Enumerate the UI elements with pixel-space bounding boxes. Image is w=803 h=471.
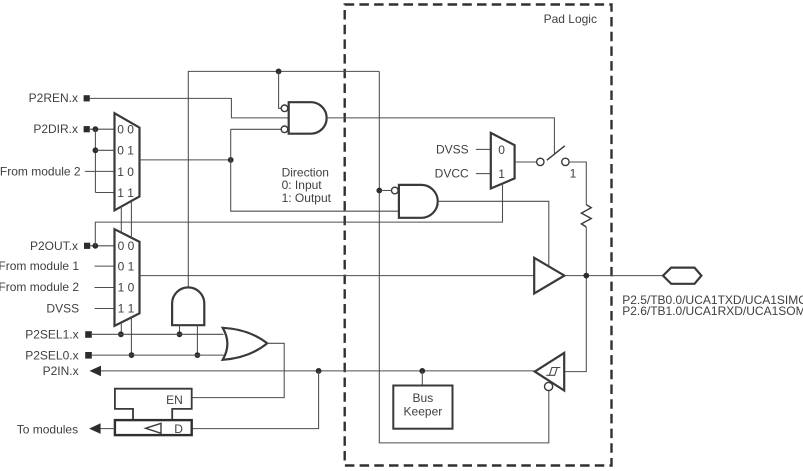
node P2IN to bus keeper junction bbox=[419, 368, 425, 374]
mux M2 (P2OUT select) bbox=[115, 229, 140, 326]
svg-text:DVSS: DVSS bbox=[46, 302, 79, 316]
wire switch to resistor R1 bbox=[569, 162, 586, 205]
gate U2 input bubble bbox=[392, 187, 399, 194]
wire Direction to NAND U1 bottom input bbox=[231, 128, 281, 130]
wire Direction vertical to gate U2 input bbox=[231, 129, 399, 211]
wire resistor R1 to pad line and Schmitt input bbox=[564, 227, 586, 372]
node P2DIR junction 2 bbox=[93, 147, 99, 153]
svg-text:DVSS: DVSS bbox=[436, 142, 469, 156]
wire OR U4 output to latch EN bbox=[192, 343, 285, 397]
Schmitt hysteresis symbol bbox=[546, 368, 560, 376]
wire From module 2 stub bbox=[95, 287, 115, 289]
wire From module 1 stub bbox=[95, 265, 115, 267]
AND U3 body (output up) bbox=[172, 287, 204, 325]
mux M3 (pull-up/down select) bbox=[491, 133, 515, 189]
svg-text:P2SEL1.x: P2SEL1.x bbox=[25, 328, 78, 342]
NAND U1 top input bubble bbox=[281, 105, 288, 112]
svg-text:DVCC: DVCC bbox=[435, 167, 469, 181]
wire P2OUT to mux M2 input 00 bbox=[90, 245, 115, 247]
wire NAND U1 output to switch lever bbox=[327, 118, 555, 154]
wire mux M1 select line S0 bbox=[130, 201, 132, 238]
switch S1 contact left bbox=[537, 158, 544, 165]
svg-text:0 1: 0 1 bbox=[118, 260, 135, 274]
svg-text:0 0: 0 0 bbox=[117, 123, 134, 137]
wire mux M1 select line S1 bbox=[120, 207, 122, 233]
svg-text:Bus: Bus bbox=[413, 391, 434, 405]
node P2OUT junction bbox=[92, 243, 98, 249]
svg-text:From module 2: From module 2 bbox=[0, 280, 79, 294]
wire DVSS stub bbox=[95, 308, 115, 310]
svg-text:Pad Logic: Pad Logic bbox=[544, 12, 597, 26]
gate U2 (AND with inverted input) body bbox=[399, 185, 438, 218]
svg-text:0: 0 bbox=[498, 143, 505, 157]
terminal square P2OUT.x bbox=[84, 243, 90, 249]
wire junction to gate U2 bubble bbox=[379, 190, 391, 192]
wire branch to NAND U1 top input bbox=[279, 71, 282, 108]
input Schmitt trigger U6 bbox=[535, 353, 564, 391]
svg-text:1 0: 1 0 bbox=[117, 165, 134, 179]
wire AND U3 input a bbox=[179, 325, 181, 334]
Pad Logic dashed box bbox=[345, 5, 612, 466]
wire P2SEL1 to OR U4 bbox=[92, 333, 224, 335]
latch L1 clock triangle bbox=[146, 423, 161, 433]
node AND U3 input a junction bbox=[177, 331, 183, 337]
node P2IN to D latch junction bbox=[316, 368, 322, 374]
NAND U1 bottom input bubble bbox=[281, 126, 288, 133]
node gate U2 input junction bbox=[376, 188, 382, 194]
node AND U3 input b junction bbox=[195, 352, 201, 358]
latch L1 EN block bbox=[115, 389, 192, 420]
wire P2IN line bbox=[101, 370, 535, 372]
wire P2DIR vertical branch bbox=[94, 129, 96, 192]
node select S0 junction bbox=[129, 352, 135, 358]
terminal square P2SEL0.x bbox=[85, 352, 92, 359]
wire DVSS stub bbox=[476, 148, 491, 150]
wire mux M1 output (Direction) bbox=[140, 159, 231, 161]
svg-text:0 0: 0 0 bbox=[118, 239, 135, 253]
wire gate U2 output to buffer enable bbox=[438, 201, 549, 266]
node select S1 junction bbox=[118, 331, 124, 337]
svg-text:From module 2: From module 2 bbox=[0, 164, 81, 178]
svg-text:From module 1: From module 1 bbox=[0, 259, 79, 273]
terminal square P2REN.x bbox=[84, 95, 90, 101]
switch S1 lever bbox=[547, 146, 565, 160]
wire From module 2 to mux M1 input 10 bbox=[85, 170, 115, 172]
output buffer U5 bbox=[534, 258, 564, 294]
svg-text:1 1: 1 1 bbox=[117, 186, 134, 200]
svg-text:EN: EN bbox=[166, 393, 183, 407]
terminal arrow To modules bbox=[89, 423, 101, 434]
terminal arrow P2IN.x bbox=[90, 366, 102, 377]
svg-text:0 1: 0 1 bbox=[117, 144, 134, 158]
node top rail junction bbox=[276, 69, 282, 75]
wire long vertical to bottom return bbox=[379, 71, 549, 443]
wire mux M3 output to switch bbox=[515, 161, 537, 163]
wire mux M2 output to output buffer bbox=[140, 275, 535, 277]
svg-text:1: 1 bbox=[570, 167, 577, 181]
wire bus keeper stub bbox=[421, 371, 423, 386]
wire P2DIR to mux M1 input 01 bbox=[95, 149, 114, 151]
wire mux M2 select line S1 bbox=[120, 323, 122, 335]
wire mux M2 select line S0 bbox=[130, 317, 132, 355]
svg-text:1: 1 bbox=[498, 167, 505, 181]
node pad junction bbox=[583, 273, 589, 279]
resistor R1 bbox=[581, 205, 591, 227]
terminal square P2DIR.x bbox=[84, 126, 90, 132]
pad hexagon bbox=[663, 268, 701, 284]
svg-text:Keeper: Keeper bbox=[404, 405, 443, 419]
svg-text:P2IN.x: P2IN.x bbox=[43, 364, 79, 378]
Schmitt enable bubble bbox=[545, 382, 553, 390]
OR U4 body bbox=[223, 328, 268, 360]
wire DVCC stub bbox=[476, 173, 491, 175]
wire P2OUT rail to mux M3 select bbox=[95, 184, 502, 246]
svg-text:To modules: To modules bbox=[17, 422, 78, 436]
wire P2IN to latch D input bbox=[192, 371, 319, 429]
svg-text:P2REN.x: P2REN.x bbox=[29, 91, 78, 105]
node P2DIR junction 1 bbox=[93, 126, 99, 132]
NAND U1 body bbox=[289, 102, 327, 134]
terminal square P2SEL1.x bbox=[85, 331, 92, 338]
svg-text:1 1: 1 1 bbox=[118, 301, 135, 315]
node Direction junction bbox=[228, 157, 234, 163]
svg-text:1: Output: 1: Output bbox=[282, 191, 332, 205]
svg-text:P2SEL0.x: P2SEL0.x bbox=[25, 348, 78, 362]
svg-text:1 0: 1 0 bbox=[118, 280, 135, 294]
latch L1 D block bbox=[115, 420, 192, 435]
wire P2DIR to mux M1 input 11 bbox=[95, 192, 114, 194]
wire P2REN to NAND U1 middle input bbox=[90, 98, 289, 118]
wire P2SEL0 to OR U4 bbox=[92, 354, 225, 356]
mux M1 (P2DIR select) bbox=[115, 113, 140, 210]
wire pad line bbox=[564, 275, 663, 277]
wire P2DIR to mux M1 input 00 bbox=[90, 128, 115, 130]
svg-text:P2.6/TB1.0/UCA1RXD/UCA1SOMI: P2.6/TB1.0/UCA1RXD/UCA1SOMI bbox=[622, 304, 803, 318]
svg-text:D: D bbox=[174, 422, 183, 436]
wire To modules bbox=[101, 428, 115, 430]
wire AND U3 input b bbox=[196, 325, 198, 355]
svg-text:P2DIR.x: P2DIR.x bbox=[33, 122, 78, 136]
switch S1 contact right bbox=[562, 158, 569, 165]
Bus Keeper box bbox=[393, 386, 452, 429]
svg-text:P2OUT.x: P2OUT.x bbox=[30, 239, 78, 253]
wire AND U3 output to top rail bbox=[188, 71, 379, 287]
